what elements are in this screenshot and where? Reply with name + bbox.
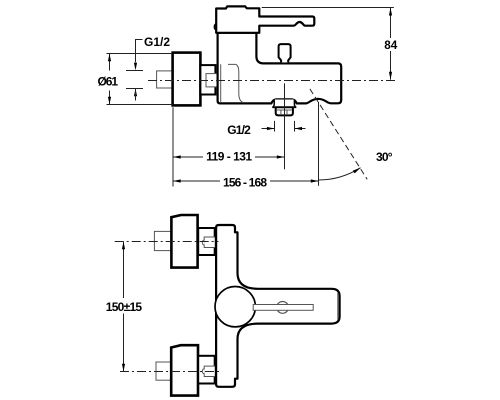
outlet G1/2 extension ticks: [274, 121, 276, 132]
faucet body (side view): [218, 33, 342, 104]
dim 150±15 line: [123, 242, 125, 298]
150±15 bottom arrow: [122, 364, 125, 372]
dimension G1/2 (inlet) bracket: [136, 40, 143, 63]
spout outlet bell: [272, 100, 296, 108]
inlet centerline (side view): [148, 80, 396, 82]
handle pivot bump: [214, 24, 216, 30]
lower connection nut (plan): [198, 356, 215, 384]
spout tip extension line: [318, 102, 320, 186]
wall face extension line: [172, 107, 174, 186]
body end-cap contour line: [220, 64, 222, 102]
upper connector round end: [202, 240, 204, 245]
upper inlet pipe (plan): [154, 231, 171, 250]
30 degree dashed line: [310, 89, 367, 179]
30 degree arc: [318, 168, 360, 180]
G1/2 inlet lower arrow: [134, 89, 137, 97]
Ø61 top arrow: [108, 54, 111, 62]
handle bar end inner line: [337, 293, 339, 320]
upper connection nut (plan): [198, 228, 215, 255]
84 top arrow: [389, 8, 392, 16]
svg-text:119 - 131: 119 - 131: [206, 149, 252, 163]
lever handle (side view): [216, 6, 314, 32]
upper thread stub (plan): [204, 237, 215, 248]
inlet pipe (side view): [157, 71, 173, 88]
G1/2 thread stub (side view): [206, 74, 218, 87]
knurl lines: [277, 109, 292, 111]
diverter knob: [279, 44, 291, 62]
svg-text:84: 84: [384, 39, 398, 52]
lever pivot circle (plan): [277, 302, 289, 314]
lever slot (plan): [253, 305, 313, 311]
inlet pipe extension lines: [126, 70, 143, 72]
body inner contour curve: [228, 64, 243, 102]
Ø61 bottom arrow: [108, 97, 111, 105]
outlet G1/2 left arrow: [262, 128, 275, 130]
dim Ø61 line: [109, 54, 111, 71]
lower thread stub (plan): [204, 366, 215, 376]
connection nut (side view): [200, 65, 215, 94]
svg-text:30°: 30°: [376, 150, 393, 164]
dim 119-131 line: [173, 156, 203, 158]
cartridge dome circle (plan): [215, 287, 255, 327]
lower connector round end: [202, 369, 204, 374]
dim Ø61 extension lines: [107, 53, 173, 55]
30 degree arc arrow: [353, 168, 361, 174]
outlet axis / extension line: [284, 83, 286, 169]
svg-text:150±15: 150±15: [106, 300, 143, 314]
dim 156-168 line: [173, 180, 220, 182]
G1/2 inlet upper arrow: [134, 63, 137, 71]
lower inlet pipe (plan): [156, 362, 171, 380]
dim 84 extension line (handle top): [262, 7, 394, 9]
faucet body and handle bar (plan view): [216, 225, 340, 387]
svg-text:G1/2: G1/2: [144, 35, 170, 49]
upper inlet centerline (plan): [115, 241, 219, 243]
150±15 top arrow: [122, 242, 125, 250]
outlet knurled nut: [276, 107, 293, 115]
upper escutcheon (plan): [171, 215, 197, 268]
svg-text:156 - 168: 156 - 168: [223, 175, 267, 189]
wall escutcheon (side view): [173, 53, 201, 106]
svg-text:Ø61: Ø61: [98, 75, 119, 89]
lower inlet centerline (plan): [120, 371, 219, 373]
dim 84 line: [390, 8, 392, 38]
84 bottom arrow: [389, 72, 392, 80]
svg-text:G1/2: G1/2: [227, 123, 251, 137]
lower escutcheon (plan): [171, 345, 198, 395]
outlet G1/2 right arrow: [295, 128, 306, 130]
